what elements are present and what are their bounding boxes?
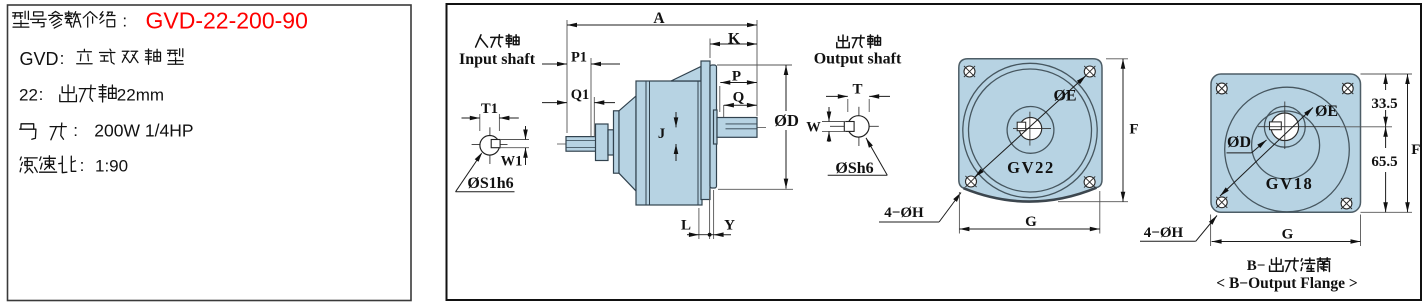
svg-text:ØSh6: ØSh6: [835, 160, 873, 177]
svg-text:33.5: 33.5: [1371, 96, 1397, 112]
svg-text::: :: [122, 12, 127, 31]
svg-text:T1: T1: [481, 101, 498, 117]
svg-text:F: F: [1129, 122, 1138, 138]
svg-text:P1: P1: [571, 50, 587, 66]
svg-text:J: J: [658, 126, 665, 142]
svg-text:Input shaft: Input shaft: [459, 51, 536, 68]
svg-text:ØD: ØD: [774, 111, 799, 130]
svg-text:4−ØH: 4−ØH: [1144, 225, 1184, 241]
svg-text:G: G: [1282, 227, 1294, 243]
svg-text:W: W: [806, 120, 821, 136]
svg-text:ØS1h6: ØS1h6: [467, 175, 513, 192]
svg-text:P: P: [732, 69, 741, 85]
svg-text:1:90: 1:90: [95, 157, 128, 176]
svg-text:L: L: [681, 218, 691, 234]
svg-text:W1: W1: [501, 154, 523, 170]
svg-text:Output shaft: Output shaft: [814, 51, 902, 68]
svg-text::: :: [80, 156, 85, 175]
svg-text:F: F: [1411, 142, 1420, 158]
svg-text::: :: [39, 85, 44, 104]
svg-text:65.5: 65.5: [1371, 154, 1397, 170]
svg-text:B−: B−: [1247, 258, 1266, 274]
svg-text:22mm: 22mm: [117, 86, 164, 105]
svg-text:GVD-22-200-90: GVD-22-200-90: [146, 8, 308, 34]
svg-text:ØE: ØE: [1053, 88, 1076, 105]
svg-text:GVD: GVD: [20, 49, 59, 69]
svg-text:Y: Y: [724, 218, 735, 234]
svg-text:Q: Q: [733, 90, 745, 106]
svg-text:GV22: GV22: [1007, 158, 1055, 177]
svg-text:GV18: GV18: [1266, 174, 1314, 193]
svg-text:200W 1/4HP: 200W 1/4HP: [94, 121, 193, 141]
svg-text::: :: [73, 121, 78, 140]
svg-text::: :: [60, 49, 65, 68]
svg-text:22: 22: [19, 86, 38, 105]
svg-text:ØE: ØE: [1315, 103, 1338, 120]
svg-text:ØD: ØD: [1227, 134, 1251, 151]
svg-text:T: T: [852, 82, 862, 98]
svg-text:4−ØH: 4−ØH: [884, 205, 924, 221]
svg-text:G: G: [1025, 214, 1037, 230]
svg-text:Q1: Q1: [571, 87, 590, 103]
svg-text:A: A: [653, 10, 665, 27]
svg-text:K: K: [728, 31, 740, 48]
svg-text:< B−Output Flange >: < B−Output Flange >: [1216, 275, 1357, 292]
